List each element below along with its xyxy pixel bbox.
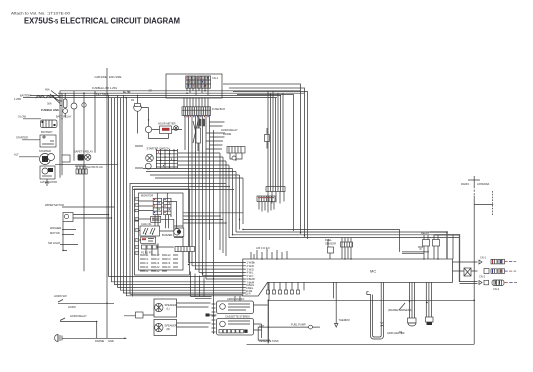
fusible link pair 2 <box>47 96 57 98</box>
cross horizontal 2 <box>184 219 224 221</box>
svg-text:GLOW: GLOW <box>18 115 26 119</box>
monitor internal wire 3 <box>139 201 154 240</box>
top long wire above MC <box>243 230 400 252</box>
wire hourmeter to fusebox <box>149 130 183 139</box>
monitor pin row 2 <box>140 257 178 261</box>
wire below key switch <box>143 169 243 179</box>
horn <box>55 335 127 344</box>
long frame wire below MC <box>269 282 475 300</box>
svg-text:BATTERY: BATTERY <box>20 94 32 98</box>
label stub left 4 <box>14 153 39 157</box>
svg-text:SENSOR: SENSOR <box>325 242 336 246</box>
fuel pump wire <box>258 323 320 344</box>
nested box line b <box>133 187 231 297</box>
glow plug relay pair <box>74 150 93 161</box>
cab enclosure third line <box>233 92 308 240</box>
svg-text:(R): (R) <box>167 327 171 331</box>
washer stub 1 <box>50 226 76 230</box>
svg-text:ENG SIDE: ENG SIDE <box>109 75 122 79</box>
svg-text:AM/FM RADIO: AM/FM RADIO <box>227 297 244 301</box>
radio right wires <box>254 305 268 338</box>
svg-text:CHG OIL: CHG OIL <box>141 222 152 226</box>
svg-text:FUEL PUMP: FUEL PUMP <box>291 323 306 327</box>
svg-text:b2: b2 <box>157 257 160 261</box>
MC internal pin labels <box>243 261 256 296</box>
svg-text:ANTENNA: ANTENNA <box>477 182 490 186</box>
svg-text:MOTOR: MOTOR <box>50 231 60 235</box>
L-wire rail 4 <box>118 95 243 287</box>
mc out wire 1 <box>453 256 517 265</box>
svg-text:SW LIGHT: SW LIGHT <box>48 241 61 245</box>
monitor internal wire 5 <box>146 231 174 255</box>
vertical feeder x74 <box>73 91 75 161</box>
svg-text:BATTERY: BATTERY <box>41 130 53 134</box>
svg-text:CN-1: CN-1 <box>480 256 487 260</box>
L-wire rail 3 <box>115 98 243 285</box>
svg-text:SPEAKER: SPEAKER <box>165 324 177 328</box>
wiper label <box>45 203 115 207</box>
washer motor box <box>63 213 112 222</box>
glow plugs <box>75 165 103 174</box>
hour meter box <box>158 122 176 134</box>
svg-text:DIODE: DIODE <box>223 132 231 136</box>
monitor connector block 2 <box>164 198 171 214</box>
svg-text:STARTER SWITCH: STARTER SWITCH <box>147 147 170 151</box>
label stub left 3 <box>16 136 40 140</box>
svg-text:a3: a3 <box>168 253 171 257</box>
cross horizontal 6 <box>229 237 460 239</box>
label stub left 1 <box>20 94 32 98</box>
bundle cable 2 below MC <box>426 282 434 325</box>
MC top pin stubs <box>257 249 287 259</box>
cable loop U <box>367 282 405 339</box>
svg-text:d3: d3 <box>168 265 171 269</box>
svg-text:RELAY: RELAY <box>421 231 430 235</box>
MC top connector pins right <box>251 252 254 259</box>
DIN connector zigzag <box>212 302 216 334</box>
svg-text:FUSE BOX: FUSE BOX <box>212 107 225 111</box>
svg-text:c3: c3 <box>168 261 171 265</box>
svg-text:FRAME: FRAME <box>95 339 104 343</box>
aux relay small <box>62 155 70 162</box>
wire battery rail 1 <box>59 91 61 178</box>
radio unit <box>217 297 254 314</box>
step wire 3 <box>402 251 429 253</box>
diagonal cross wires <box>193 121 199 143</box>
monitor pin row 3 <box>140 261 178 265</box>
monitor box <box>139 193 184 270</box>
fuse holder dark bars <box>199 119 201 127</box>
svg-text:c1: c1 <box>146 261 149 265</box>
starter motor <box>39 149 55 165</box>
cab enclosure fourth line <box>237 95 294 232</box>
monitor internal wire 1 <box>155 215 169 229</box>
engine ground wire <box>55 163 118 165</box>
monitor internal wire 2 <box>157 193 167 207</box>
cross horizontal 0 <box>184 212 244 214</box>
right stub wires from verticals <box>206 122 225 149</box>
svg-text:BUZZER: BUZZER <box>162 233 173 237</box>
weave vertical 1 <box>219 153 221 250</box>
fuel sender connector above MC <box>325 238 336 259</box>
svg-text:THERMO: THERMO <box>339 318 350 322</box>
connector block 2 with diodes <box>266 187 285 204</box>
svg-text:FUSIBLE LINK 1.25G: FUSIBLE LINK 1.25G <box>92 86 117 90</box>
small relay circle <box>145 120 151 139</box>
svg-text:CN-3: CN-3 <box>493 287 500 291</box>
step wire 4 <box>402 253 424 255</box>
monitor connector block 1 <box>153 198 161 214</box>
fusible link pair 1 <box>35 88 50 98</box>
svg-text:A B C D E F: A B C D E F <box>256 246 270 250</box>
feeder relay circle 2 <box>82 103 86 107</box>
radio feed drops <box>191 272 205 297</box>
vertical feed to DIN <box>213 130 215 302</box>
weave vertical 3 <box>225 161 227 256</box>
svg-text:STARTER: STARTER <box>16 136 28 140</box>
svg-text:GND: GND <box>108 339 114 343</box>
weave vertical 2 <box>222 157 224 253</box>
svg-text:CAB SIDE: CAB SIDE <box>95 75 107 79</box>
monitor left pins <box>135 199 139 253</box>
svg-text:STARTER: STARTER <box>39 149 51 153</box>
monitor pin row 5 <box>140 269 167 273</box>
monitor small box row <box>142 245 158 249</box>
wire relay drop <box>138 108 149 134</box>
resistor block right <box>175 247 195 252</box>
bundle cable 1 below MC <box>408 282 417 326</box>
drop wires to connector block 2 <box>268 91 283 187</box>
monitor pin row 4 <box>140 265 178 269</box>
MC bottom pin drivers <box>267 282 305 294</box>
cross horizontal 3 <box>184 222 227 224</box>
monitor outer box <box>135 189 190 275</box>
svg-text:B+ 5R: B+ 5R <box>123 90 131 94</box>
cassette unit <box>217 315 254 336</box>
vertical washer drop <box>63 222 67 251</box>
fuse outputs going down <box>185 116 210 280</box>
long vertical horn feed x107 <box>106 68 108 338</box>
relay pair above MC right <box>421 231 440 259</box>
svg-text:(L): (L) <box>167 307 170 311</box>
multi pin connector above MC <box>341 238 353 259</box>
gauge box 2 <box>141 237 156 243</box>
junction dots bottom <box>106 300 475 340</box>
svg-text:HORN RELAY: HORN RELAY <box>70 314 87 318</box>
svg-text:d1: d1 <box>146 265 149 269</box>
svg-text:ANT: ANT <box>259 324 265 328</box>
small component on vertical <box>265 128 270 149</box>
monitor LCD box <box>151 216 161 222</box>
vertical feeder x95 <box>94 91 96 153</box>
ground tick near relays <box>418 247 423 249</box>
weave vertical 6 <box>235 172 237 233</box>
wire bus top3 <box>30 94 281 96</box>
thermo sensor drop <box>334 282 350 327</box>
monitor left connector marks <box>135 198 139 254</box>
svg-text:WASHER: WASHER <box>50 226 61 230</box>
speaker wires <box>177 303 211 327</box>
fuse box relay left <box>131 95 141 119</box>
alternator with regulator <box>40 166 57 184</box>
mc out wire 3 <box>460 280 518 291</box>
left label row extra <box>14 97 21 101</box>
small connector at MC right edge <box>464 268 471 276</box>
cross horizontal 4 <box>236 231 448 233</box>
horn relay cluster right of fusebox <box>221 128 245 161</box>
cross horizontal 5 <box>233 234 454 236</box>
nested box line a <box>130 184 226 295</box>
svg-text:ALT: ALT <box>14 153 19 157</box>
svg-text:P1 P2 P3: P1 P2 P3 <box>141 251 153 255</box>
diagonal stub <box>399 303 405 310</box>
stub 3 <box>48 241 78 245</box>
horn relay stub <box>60 314 97 338</box>
monitor internal wire 4 <box>161 202 177 229</box>
L-wire rail 2 <box>112 98 243 282</box>
radio feed bend <box>191 296 241 301</box>
battery main <box>40 130 56 147</box>
buzzer circles <box>174 226 184 238</box>
svg-text:RESERVE TANK: RESERVE TANK <box>259 339 279 343</box>
svg-text:b1: b1 <box>146 257 149 261</box>
monitor pin row 1 <box>140 253 178 257</box>
svg-text:30A: 30A <box>47 102 52 106</box>
label stub left 2 <box>18 115 41 119</box>
speaker L box <box>154 299 177 317</box>
L-wire rail 5 <box>121 98 243 291</box>
svg-text:1.25R: 1.25R <box>14 97 21 101</box>
svg-text:CN-1: CN-1 <box>212 76 219 80</box>
cab enclosure outer box <box>223 84 301 233</box>
svg-text:BATT RELAY: BATT RELAY <box>56 115 72 119</box>
mc out wire 2 <box>453 269 517 279</box>
svg-text:CN-2: CN-2 <box>479 275 486 279</box>
svg-text:HORN RELAY: HORN RELAY <box>221 128 238 132</box>
speaker relay box <box>124 312 154 318</box>
svg-text:SPEAKER: SPEAKER <box>165 303 177 307</box>
svg-text:HOUR METER: HOUR METER <box>158 122 176 126</box>
vertical drop x268 to fuel line <box>267 300 269 343</box>
svg-text:EX75US-5 ELECTRICAL CIRCUIT DI: EX75US-5 ELECTRICAL CIRCUIT DIAGRAM <box>24 16 180 26</box>
svg-text:P2: P2 <box>399 330 403 334</box>
connector block upper right of monitor <box>257 196 275 213</box>
wire battery rail 2 <box>61 93 63 175</box>
svg-text:11 R: 11 R <box>245 292 250 296</box>
lamp symbol <box>174 126 179 131</box>
battery relay <box>56 93 72 118</box>
wire bus top2 <box>58 92 304 94</box>
step wire 1 <box>430 232 447 259</box>
cross horizontal 1 <box>184 215 221 217</box>
svg-text:ALTERNATOR: ALTERNATOR <box>40 180 57 184</box>
weave vertical 8 <box>242 178 244 224</box>
vertical feeder x84 <box>83 93 85 271</box>
fuse output bends into MC <box>189 263 243 280</box>
wire bus top4 <box>30 97 277 99</box>
speaker R box <box>154 320 177 336</box>
svg-text:FUEL: FUEL <box>325 238 332 242</box>
wire bus top1 <box>60 90 300 92</box>
step wire 2 <box>434 235 460 282</box>
junction L marker <box>206 314 217 317</box>
svg-text:R1: R1 <box>131 98 135 102</box>
svg-text:MONITOR: MONITOR <box>141 194 153 198</box>
battery sub box <box>41 120 58 128</box>
svg-text:RADIO: RADIO <box>461 182 469 186</box>
weave vertical 4 <box>228 165 230 238</box>
svg-text:WIPER MOTOR: WIPER MOTOR <box>45 203 64 207</box>
link diagonals <box>50 91 60 104</box>
connector CN-A hatched block <box>186 76 219 95</box>
wire key to fuse <box>178 153 229 165</box>
svg-text:MC: MC <box>370 269 376 274</box>
svg-text:GLOW PLUG: GLOW PLUG <box>87 165 103 169</box>
resistor tall center <box>196 116 201 152</box>
svg-text:b3: b3 <box>168 257 171 261</box>
svg-text:CASSETTE STEREO: CASSETTE STEREO <box>225 315 250 319</box>
cab enclosure inner box <box>229 88 305 236</box>
weave vertical 5 <box>232 169 234 235</box>
box A around main connectors <box>166 74 222 98</box>
L-wire rail 1 <box>109 95 243 276</box>
weave vertical 7 <box>239 175 241 230</box>
svg-text:2R: 2R <box>149 89 152 93</box>
L-wire rail 7 <box>127 98 243 296</box>
ground starter <box>45 179 49 185</box>
washer stub 2 <box>50 231 74 235</box>
svg-text:45A: 45A <box>45 88 50 92</box>
svg-text:c2: c2 <box>157 261 160 265</box>
svg-text:FUSIBLE LINK: FUSIBLE LINK <box>41 108 59 112</box>
L-wire rail 6 <box>124 95 243 293</box>
radio ground run <box>247 343 475 345</box>
svg-text:HORN: HORN <box>68 305 76 309</box>
svg-text:d2: d2 <box>157 265 160 269</box>
svg-text:HORN SW: HORN SW <box>54 294 67 298</box>
feeder relay circle <box>71 103 77 109</box>
junction dots scattered <box>61 93 448 323</box>
junction dots on bus <box>83 90 206 98</box>
nested box line c <box>133 189 234 191</box>
connector pin stubs above fuse box <box>184 98 208 107</box>
gauge box with needles <box>140 226 160 236</box>
